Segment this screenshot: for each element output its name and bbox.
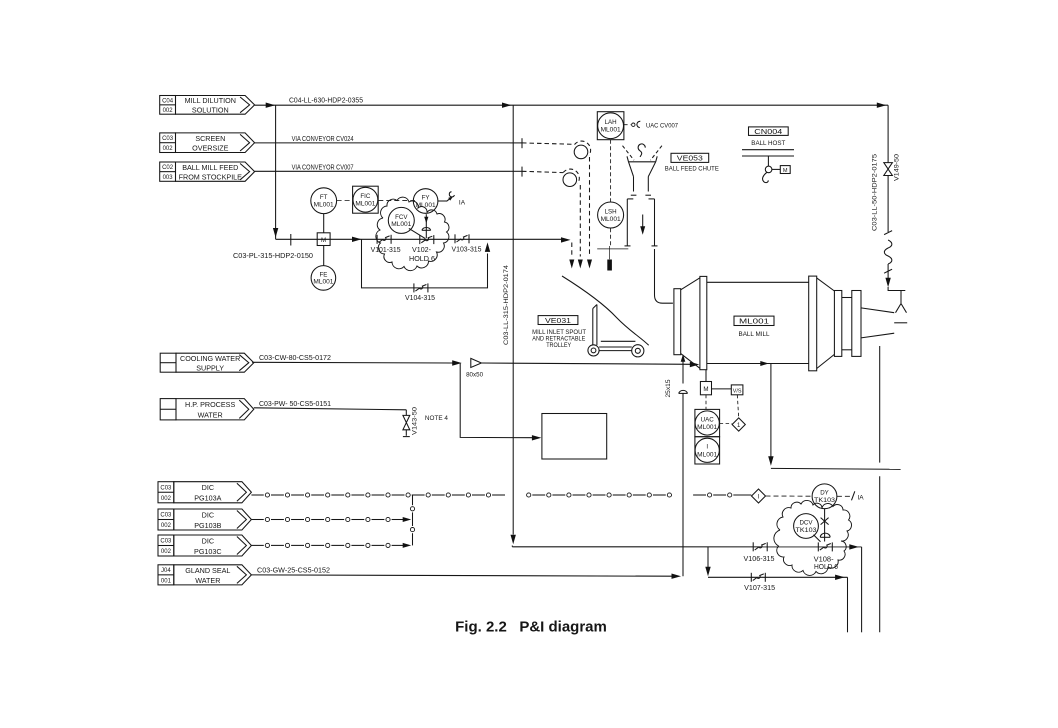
svg-text:NOTE 4: NOTE 4: [425, 415, 448, 422]
svg-text:GLAND SEAL: GLAND SEAL: [185, 566, 230, 575]
svg-text:C03-CW-80-CS5-0172: C03-CW-80-CS5-0172: [259, 355, 331, 362]
svg-text:ML001: ML001: [355, 201, 376, 208]
svg-text:H.P. PROCESS: H.P. PROCESS: [185, 400, 235, 409]
svg-text:AND RETRACTABLE: AND RETRACTABLE: [532, 337, 585, 343]
svg-text:V101-315: V101-315: [371, 247, 401, 254]
svg-text:C03-LL-315-HDP2-0174: C03-LL-315-HDP2-0174: [503, 264, 510, 345]
svg-text:ML001: ML001: [601, 127, 622, 134]
svg-text:HOLD 6: HOLD 6: [409, 256, 435, 263]
svg-text:FROM STOCKPILE: FROM STOCKPILE: [179, 172, 243, 181]
svg-text:003: 003: [163, 175, 174, 181]
svg-text:002: 002: [161, 549, 172, 555]
svg-text:Fig. 2.2 P&I diagram: Fig. 2.2 P&I diagram: [455, 619, 607, 636]
svg-text:DIC: DIC: [202, 536, 214, 545]
svg-text:V108-: V108-: [814, 557, 835, 564]
svg-text:DY: DY: [820, 490, 829, 497]
svg-text:V104-315: V104-315: [405, 295, 435, 302]
svg-text:002: 002: [163, 108, 174, 114]
svg-text:PG103A: PG103A: [194, 494, 221, 503]
svg-text:C03: C03: [160, 485, 172, 491]
svg-text:C03: C03: [160, 513, 172, 519]
svg-text:ML001: ML001: [697, 424, 718, 431]
svg-text:C03: C03: [162, 136, 174, 142]
svg-text:002: 002: [161, 523, 172, 529]
svg-text:TK103: TK103: [796, 527, 818, 534]
svg-text:001: 001: [161, 578, 172, 584]
svg-text:PG103B: PG103B: [194, 521, 221, 530]
svg-text:IA: IA: [459, 199, 466, 206]
svg-text:25x15: 25x15: [665, 379, 672, 398]
svg-text:FCV: FCV: [395, 214, 408, 221]
svg-text:M: M: [703, 386, 708, 393]
svg-text:TROLLEY: TROLLEY: [546, 343, 571, 349]
svg-text:SUPPLY: SUPPLY: [196, 363, 224, 372]
svg-text:SCREEN: SCREEN: [195, 134, 225, 143]
svg-text:VIA CONVEYOR CV024: VIA CONVEYOR CV024: [292, 136, 354, 143]
svg-text:V107-315: V107-315: [744, 585, 775, 592]
svg-text:BALL HOST: BALL HOST: [751, 140, 785, 147]
svg-text:WATER: WATER: [195, 576, 220, 585]
svg-text:FY: FY: [422, 194, 430, 201]
svg-text:VE031: VE031: [545, 316, 571, 325]
svg-text:FE: FE: [319, 271, 327, 278]
svg-text:BALL FEED CHUTE: BALL FEED CHUTE: [665, 166, 719, 173]
svg-text:V103-315: V103-315: [452, 247, 482, 254]
svg-text:VIA CONVEYOR CV007: VIA CONVEYOR CV007: [292, 165, 354, 172]
svg-text:DIC: DIC: [202, 510, 214, 519]
svg-text:VE053: VE053: [677, 154, 703, 163]
svg-text:ML001: ML001: [601, 216, 622, 223]
svg-text:C03-PL-315-HDP2-0150: C03-PL-315-HDP2-0150: [233, 253, 313, 260]
svg-text:C03-PW- 50-CS5-0151: C03-PW- 50-CS5-0151: [259, 401, 331, 408]
svg-text:PG103C: PG103C: [194, 547, 222, 556]
svg-text:MILL INLET SPOUT: MILL INLET SPOUT: [532, 330, 586, 336]
svg-text:FIC: FIC: [360, 193, 370, 200]
svg-text:V/S: V/S: [733, 388, 742, 394]
svg-text:BALL MILL: BALL MILL: [739, 331, 770, 338]
svg-text:M: M: [321, 237, 326, 244]
svg-text:V149-50: V149-50: [894, 153, 901, 181]
svg-text:V106-315: V106-315: [744, 556, 775, 563]
svg-text:ML001: ML001: [314, 202, 335, 209]
svg-text:C04-LL-630-HDP2-0355: C04-LL-630-HDP2-0355: [289, 97, 363, 104]
svg-text:80x50: 80x50: [466, 371, 483, 378]
svg-text:002: 002: [163, 146, 174, 152]
svg-text:UAC: UAC: [701, 416, 715, 423]
svg-text:ML001: ML001: [391, 221, 412, 228]
svg-text:ML001: ML001: [739, 317, 769, 326]
svg-text:C02: C02: [162, 165, 174, 171]
svg-text:DCV: DCV: [799, 519, 813, 526]
svg-text:MILL DILUTION: MILL DILUTION: [185, 96, 236, 105]
svg-text:LSH: LSH: [605, 208, 617, 215]
svg-text:C04: C04: [162, 99, 174, 105]
svg-text:ML001: ML001: [697, 451, 718, 458]
svg-text:IA: IA: [858, 495, 865, 502]
svg-text:C03-LL-50-HDP2-0175: C03-LL-50-HDP2-0175: [872, 153, 879, 231]
svg-text:FT: FT: [320, 194, 328, 201]
svg-text:ML001: ML001: [313, 279, 334, 286]
svg-text:HOLD 6: HOLD 6: [814, 564, 838, 571]
svg-text:OVERSIZE: OVERSIZE: [192, 144, 229, 153]
svg-text:V102-: V102-: [412, 247, 432, 254]
svg-text:DIC: DIC: [202, 483, 214, 492]
svg-text:LAH: LAH: [605, 119, 617, 126]
svg-text:UAC CV007: UAC CV007: [646, 122, 678, 129]
svg-text:BALL MILL FEED: BALL MILL FEED: [182, 163, 238, 172]
svg-text:M: M: [783, 168, 788, 174]
svg-text:V143-50: V143-50: [412, 406, 419, 435]
svg-text:SOLUTION: SOLUTION: [192, 106, 229, 115]
svg-text:C03-GW-25-CS5-0152: C03-GW-25-CS5-0152: [257, 567, 330, 574]
svg-text:COOLING WATER: COOLING WATER: [180, 354, 240, 363]
svg-text:002: 002: [161, 496, 172, 502]
svg-text:J04: J04: [161, 568, 171, 574]
svg-text:I: I: [706, 444, 708, 451]
svg-text:CN004: CN004: [754, 127, 782, 136]
svg-text:WATER: WATER: [198, 411, 223, 420]
svg-text:C03: C03: [160, 539, 172, 545]
